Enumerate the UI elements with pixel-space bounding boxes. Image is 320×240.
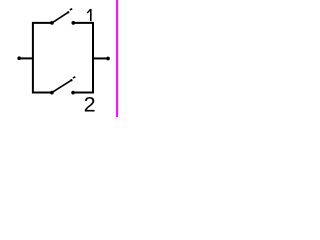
svg-text:2: 2 [84,92,96,117]
